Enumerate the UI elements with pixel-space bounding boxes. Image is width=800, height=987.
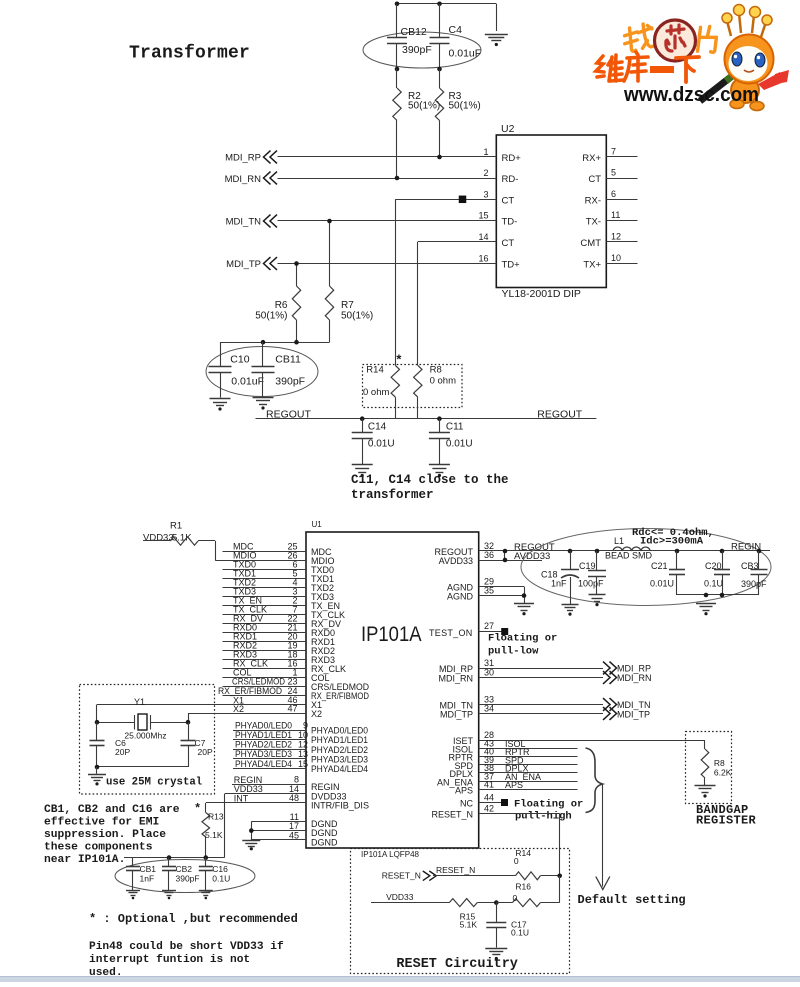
node C16 junction <box>204 855 209 860</box>
svg-text:44: 44 <box>484 793 494 803</box>
label BANDGAP REGISTER <box>696 803 757 828</box>
note EMI suppression <box>44 804 180 866</box>
net REGIN <box>731 542 761 553</box>
svg-text:R13: R13 <box>208 812 224 822</box>
wire top rail <box>397 4 497 32</box>
capacitor C19 <box>578 551 606 595</box>
U1 pin 30 inside label <box>438 674 473 684</box>
svg-text:0: 0 <box>513 893 518 903</box>
svg-text:CMT: CMT <box>580 238 601 249</box>
svg-text:INTR/FIB_DIS: INTR/FIB_DIS <box>311 801 369 811</box>
svg-text:RESET_N: RESET_N <box>431 810 473 820</box>
svg-text:PHYAD1/LED1: PHYAD1/LED1 <box>235 730 292 740</box>
ellipse power filter <box>521 529 771 606</box>
U1 pin 28 ISET <box>479 730 705 741</box>
svg-text:MDI_RN: MDI_RN <box>438 674 473 684</box>
svg-text:50(1%): 50(1%) <box>255 310 287 321</box>
node C21 junction <box>675 549 680 554</box>
U1 pin 34 MDI_TP <box>479 704 603 714</box>
node R14 right <box>557 874 562 879</box>
U1 pin 44 NC <box>479 793 501 803</box>
ground under C16 <box>199 891 213 900</box>
U1 pin 2 TX_EN wire <box>223 596 307 606</box>
net REGOUT left <box>266 408 312 420</box>
svg-text:MDI_TP: MDI_TP <box>617 709 650 719</box>
U2 pin 16 TD+ (left) <box>478 254 520 271</box>
capacitor C20 <box>704 551 730 595</box>
note floating pull-low <box>488 633 557 658</box>
svg-text:PHYAD0/LED0: PHYAD0/LED0 <box>311 726 368 736</box>
svg-text:suppression. Place: suppression. Place <box>44 829 166 841</box>
net REGOUT right <box>537 408 583 420</box>
svg-text:L1: L1 <box>614 536 624 546</box>
net MDI_RN <box>225 172 277 185</box>
wire AGND join <box>524 587 526 603</box>
resistor R7 <box>325 221 373 342</box>
svg-text:34: 34 <box>484 704 494 714</box>
wire DGND bus <box>251 821 253 840</box>
svg-text:390pF: 390pF <box>176 874 200 884</box>
U1 pin 10 PHYAD1/LED1 wire <box>233 730 308 740</box>
U1 pin 8 inside label <box>311 782 340 792</box>
U1 pin 19 RXD2 inside label <box>311 646 335 656</box>
resistor R1 <box>143 521 216 561</box>
svg-text:36: 36 <box>484 550 494 560</box>
transformer U2 box <box>496 123 606 288</box>
wire REGOUT rail <box>256 418 597 420</box>
svg-text:YL18-2001D DIP: YL18-2001D DIP <box>502 288 581 300</box>
U2 pin 2 RD- (left) <box>483 168 518 185</box>
wire REGOUT-AVDD33 tie <box>504 551 506 560</box>
label IP101A LQFP48 <box>361 850 420 859</box>
U1 pin 44 inside label <box>460 799 473 809</box>
svg-text:15: 15 <box>478 211 488 221</box>
svg-text:0.1U: 0.1U <box>212 874 230 884</box>
node bottom junction 2 <box>720 593 725 598</box>
U1 pin 17 DGND wire <box>251 821 306 831</box>
U1 pin 3 TXD3 inside label <box>311 592 334 602</box>
dotted box RESET <box>351 849 570 974</box>
U1 pin 25 MDC wire <box>223 542 307 552</box>
U1 pin 28 inside label <box>453 736 474 746</box>
U1 pin 19 RXD2 wire <box>223 641 307 651</box>
U1 pin 20 RXD1 wire <box>223 632 307 642</box>
note pin48 <box>89 941 284 979</box>
svg-text:Y1: Y1 <box>134 697 145 707</box>
svg-text:PHYAD2/LED2: PHYAD2/LED2 <box>311 745 368 755</box>
svg-text:15: 15 <box>298 759 308 769</box>
svg-text:PHYAD1/LED1: PHYAD1/LED1 <box>311 735 368 745</box>
asterisk optional mark <box>395 353 403 368</box>
svg-text:31: 31 <box>484 658 494 668</box>
svg-text:27: 27 <box>484 621 494 631</box>
U1 pin 33 MDI_TN <box>479 695 603 705</box>
svg-text:BEAD SMD: BEAD SMD <box>605 551 653 561</box>
U1 pin 35 inside label <box>447 592 474 602</box>
svg-text:Floating or: Floating or <box>488 633 557 645</box>
capacitor C7 <box>181 722 213 767</box>
svg-text:RD-: RD- <box>502 174 519 185</box>
svg-text:IP101A LQFP48: IP101A LQFP48 <box>361 850 420 859</box>
U1 pin 3 TXD3 wire <box>223 587 307 597</box>
svg-text:50(1%): 50(1%) <box>449 101 481 112</box>
svg-text:Pin48 could be short VDD33 if: Pin48 could be short VDD33 if <box>89 941 284 953</box>
node R6 top <box>294 261 299 266</box>
svg-text:PHYAD3/LED3: PHYAD3/LED3 <box>235 749 292 759</box>
U1 pin 6 TXD0 inside label <box>311 565 334 575</box>
net MDI_TN <box>226 215 277 228</box>
svg-text:pull-low: pull-low <box>488 645 539 657</box>
wire MDI_TN <box>278 220 497 222</box>
node R15 R16 C17 junction <box>494 900 499 905</box>
svg-text:2: 2 <box>483 168 488 178</box>
node crystal right <box>186 720 191 725</box>
svg-text:* : Optional ,but recommended: * : Optional ,but recommended <box>89 912 298 926</box>
dotted box R14 R8 <box>363 365 463 408</box>
U1 pin 43 inside label <box>452 744 473 754</box>
svg-text:RX_ER/FIBMOD: RX_ER/FIBMOD <box>218 686 282 696</box>
IC U1 box <box>306 520 479 848</box>
svg-text:MDI_RP: MDI_RP <box>225 153 261 164</box>
U2 pin 1 RD+ (left) <box>483 147 521 164</box>
wire cap bottoms <box>677 594 759 596</box>
svg-text:NC: NC <box>460 799 473 809</box>
U1 pin 42 RESET_N <box>479 804 560 814</box>
svg-text:C4: C4 <box>449 24 463 36</box>
svg-text:48: 48 <box>289 793 299 803</box>
asterisk R13 <box>194 802 201 816</box>
node C20 junction <box>720 549 725 554</box>
U1 pin 23 CRS/LEDMOD inside label <box>311 682 369 692</box>
svg-text:MDI_TN: MDI_TN <box>226 217 262 228</box>
svg-text:0.01U: 0.01U <box>368 439 395 450</box>
label YL18-2001D DIP <box>502 288 581 300</box>
node C18 junction <box>568 549 573 554</box>
svg-text:APS: APS <box>455 786 473 796</box>
wire MDI_RN <box>278 178 497 180</box>
U1 pin 15 PHYAD4/LED4 wire <box>233 759 308 769</box>
U1 pin 36 inside label <box>439 556 473 566</box>
U1 pin 32 inside label <box>434 547 473 557</box>
ellipse around C10 CB11 <box>206 347 318 397</box>
svg-text:REGISTER: REGISTER <box>696 814 757 828</box>
U1 pin 7 TX_CLK inside label <box>311 610 345 620</box>
svg-text:X2: X2 <box>233 704 244 714</box>
wire VDD33 cap rail <box>124 857 225 859</box>
svg-text:Idc>=300mA: Idc>=300mA <box>640 536 704 548</box>
label RESET Circuitry <box>396 957 518 972</box>
brace option pins <box>586 748 603 813</box>
website logo dzsc <box>596 5 789 111</box>
ground top right <box>485 35 508 47</box>
node R2 to MDI_RN <box>395 176 400 181</box>
svg-text:REGIN: REGIN <box>731 542 761 553</box>
svg-text:R16: R16 <box>515 881 531 891</box>
U1 pin 29 inside label <box>447 583 474 593</box>
node crystal left <box>95 720 100 725</box>
svg-text:0.01uF: 0.01uF <box>231 375 264 387</box>
U1 pin 18 RXD3 wire <box>223 650 307 660</box>
svg-text:0.1U: 0.1U <box>704 579 723 589</box>
svg-text:5.1K: 5.1K <box>460 920 478 930</box>
capacitor C14 <box>352 419 395 464</box>
node R6 bottom junction <box>294 340 299 345</box>
U2 pin 5 CT (right) <box>588 168 637 186</box>
U1 pin 5 TXD1 wire <box>223 569 307 579</box>
svg-text:0 ohm: 0 ohm <box>430 375 456 386</box>
U1 pin 48 inside label <box>311 801 369 811</box>
U1 pin 6 TXD0 wire <box>223 560 307 570</box>
svg-text:47: 47 <box>287 704 297 714</box>
U1 pin 24 RX_ER/FIBMOD wire <box>218 686 306 696</box>
svg-text:VDD33: VDD33 <box>386 892 414 902</box>
capacitor CB1 <box>126 858 156 890</box>
svg-text:PHYAD4/LED4: PHYAD4/LED4 <box>311 764 368 774</box>
wire U2 pin3 CT <box>395 199 496 365</box>
svg-text:PHYAD4/LED4: PHYAD4/LED4 <box>235 759 292 769</box>
U1 pin 27 TEST_ON <box>479 621 503 632</box>
U1 pin 46 X1 label <box>233 695 322 710</box>
ground DGND <box>242 841 260 851</box>
U2 pin 6 RX- (right) <box>585 189 638 207</box>
note default setting <box>578 893 686 907</box>
U1 pin 26 MDIO inside label <box>311 556 335 566</box>
svg-text:13: 13 <box>298 749 308 759</box>
svg-text:0: 0 <box>514 856 519 866</box>
inductor L1 BEAD SMD <box>605 536 653 561</box>
svg-text:near IP101A.: near IP101A. <box>44 854 125 866</box>
wire U2 pin14 CT <box>418 242 497 366</box>
svg-text:CT: CT <box>588 174 601 185</box>
dotted box bandgap <box>686 732 732 804</box>
U1 pin 24 RX_ER/FIBMOD inside label <box>311 691 369 701</box>
U2 pin 10 TX+ (right) <box>583 253 637 271</box>
U1 pin 1 COL inside label <box>311 673 330 683</box>
wire X1 <box>97 705 307 723</box>
wire MDI_TP <box>278 263 497 265</box>
U1 pin 1 COL wire <box>223 668 307 678</box>
note Rdc <box>632 527 714 548</box>
U1 pin 32 REGOUT <box>479 541 770 553</box>
U1 pin 41 inside label <box>455 786 473 796</box>
U1 pin 45 DGND wire <box>251 830 306 840</box>
footer bar <box>0 977 800 983</box>
svg-text:www.dzsc.com: www.dzsc.com <box>623 84 759 106</box>
capacitor CB2 <box>162 858 200 890</box>
svg-text:U2: U2 <box>501 123 515 135</box>
U1 pin 37 AN_ENA <box>479 771 578 782</box>
svg-text:20P: 20P <box>198 747 213 757</box>
node CB3 junction <box>757 549 762 554</box>
U1 pin 18 RXD3 inside label <box>311 655 335 665</box>
U1 pin 39 inside label <box>454 761 473 771</box>
svg-text:14: 14 <box>478 232 488 242</box>
svg-text:11: 11 <box>611 210 620 220</box>
svg-text:MDI_RP: MDI_RP <box>617 664 651 674</box>
node R7 top <box>327 219 332 224</box>
ellipse around CB12 C4 <box>363 32 481 68</box>
U1 pin 16 RX_CLK wire <box>223 659 307 669</box>
ground under CB11 <box>253 398 274 410</box>
wire MDI_RP <box>278 156 497 158</box>
wire cap rail <box>220 342 330 344</box>
svg-text:APS: APS <box>505 780 523 790</box>
dotted box crystal <box>80 685 215 795</box>
svg-text:RESET_N: RESET_N <box>382 871 421 881</box>
svg-text:RX+: RX+ <box>582 153 601 164</box>
wire VDD33 stub <box>371 902 449 904</box>
svg-text:25.000Mhz: 25.000Mhz <box>124 731 166 741</box>
U1 pin 8 REGIN wire <box>232 775 306 785</box>
U2 pin 3 CT (left) <box>483 189 514 206</box>
U1 pin 33 inside label <box>440 701 474 711</box>
ellipse around CB1 CB2 C16 <box>115 860 255 893</box>
U1 pin 11 DGND wire <box>251 812 306 822</box>
svg-text:C19: C19 <box>579 561 596 571</box>
svg-text:41: 41 <box>484 780 494 790</box>
net MDI_TP right <box>603 707 650 720</box>
svg-text:VDD33: VDD33 <box>143 533 174 544</box>
U1 pin 16 RX_CLK inside label <box>311 664 346 674</box>
svg-text:RESET_N: RESET_N <box>436 865 475 875</box>
net VDD33 reset <box>386 892 414 902</box>
ground power filter <box>696 604 716 616</box>
U1 pin 45 inside label <box>311 838 338 848</box>
U1 pin 41 APS <box>479 780 578 791</box>
ground under C19 <box>589 595 606 607</box>
svg-text:C11, C14 close to the: C11, C14 close to the <box>351 473 509 487</box>
svg-text:1nF: 1nF <box>140 874 155 884</box>
label IP101A <box>361 623 422 646</box>
svg-text:MDI_RN: MDI_RN <box>225 174 262 185</box>
node CB2 junction <box>167 855 172 860</box>
svg-text:10: 10 <box>611 253 621 263</box>
svg-text:C14: C14 <box>368 422 387 433</box>
svg-text:RESET Circuitry: RESET Circuitry <box>396 957 518 972</box>
svg-text:use 25M crystal: use 25M crystal <box>106 777 202 789</box>
ground under C17 <box>485 949 507 961</box>
ground AGND <box>514 604 534 616</box>
crystal Y1 <box>97 697 188 741</box>
svg-text:50(1%): 50(1%) <box>341 310 373 321</box>
wire reset vertical <box>559 876 561 903</box>
node NC square pin44 <box>501 799 508 806</box>
capacitor C21 <box>650 551 685 595</box>
svg-text:MDI_RN: MDI_RN <box>617 673 652 683</box>
capacitor C10 <box>209 342 265 397</box>
U1 pin 17 inside label <box>311 828 338 838</box>
U2 pin 11 TX- (right) <box>586 210 638 228</box>
U1 pin 5 TXD1 inside label <box>311 574 334 584</box>
svg-text:C16: C16 <box>212 864 228 874</box>
U1 pin 26 MDIO wire <box>215 551 306 561</box>
U1 pin 12 PHYAD2/LED2 wire <box>233 740 308 750</box>
capacitor C4 <box>430 4 482 69</box>
svg-text:R8: R8 <box>430 365 442 376</box>
U1 pin 48 INT wire <box>206 793 307 813</box>
svg-text:42: 42 <box>484 804 494 814</box>
wire crystal bottom <box>97 766 188 768</box>
node top rail junctions <box>395 2 442 7</box>
svg-text:16: 16 <box>478 254 488 264</box>
U1 pin 37 inside label <box>437 777 473 787</box>
svg-text:30: 30 <box>484 668 494 678</box>
U1 pin 13 PHYAD3/LED3 wire <box>233 749 308 759</box>
svg-text:MDI_RP: MDI_RP <box>439 664 473 674</box>
svg-text:Default setting: Default setting <box>578 893 686 907</box>
svg-text:*: * <box>194 802 201 816</box>
note use 25M crystal <box>106 777 202 789</box>
svg-text:X2: X2 <box>311 709 322 719</box>
svg-text:100pF: 100pF <box>578 579 604 589</box>
ground under C11 <box>429 465 450 478</box>
U1 pin 22 RX_DV wire <box>223 614 307 624</box>
U1 pin 31 inside label <box>439 664 473 674</box>
U2 pin 14 CT (left) <box>478 232 514 249</box>
node AGND <box>522 593 527 598</box>
svg-text:these components: these components <box>44 842 153 854</box>
U1 pin 23 CRS/LEDMOD wire <box>223 677 307 687</box>
resistor R2 <box>393 69 440 178</box>
note floating pull-high <box>514 799 583 823</box>
note C11 C14 close <box>351 473 509 502</box>
resistor R15 5.1K <box>449 899 496 930</box>
wire ISET to R8 <box>704 740 706 749</box>
svg-text:REGOUT: REGOUT <box>537 408 583 420</box>
svg-text:CB1, CB2 and C16 are: CB1, CB2 and C16 are <box>44 804 180 816</box>
svg-text:AGND: AGND <box>447 592 474 602</box>
U1 pin 25 MDC inside label <box>311 547 332 557</box>
resistor R14 0ohm <box>363 365 400 419</box>
node CB12-R2 junction <box>395 67 400 72</box>
svg-text:C20: C20 <box>705 561 722 571</box>
svg-text:35: 35 <box>484 586 494 596</box>
U1 pin 20 RXD1 inside label <box>311 637 335 647</box>
svg-text:C21: C21 <box>651 561 668 571</box>
svg-text:pull-high: pull-high <box>515 811 572 823</box>
node DGND junction <box>249 828 254 833</box>
svg-text:5.1K: 5.1K <box>205 830 223 840</box>
svg-text:3: 3 <box>483 189 488 199</box>
svg-text:transformer: transformer <box>351 488 434 502</box>
node NC square pin27 <box>501 628 508 635</box>
capacitor CB3 <box>741 551 768 595</box>
capacitor CB11 <box>252 342 306 397</box>
svg-text:CT: CT <box>502 195 515 206</box>
svg-text:TD-: TD- <box>502 217 518 228</box>
svg-text:MDI_TP: MDI_TP <box>440 710 473 720</box>
U1 pin 22 RX_DV inside label <box>311 619 341 629</box>
label RESET_N <box>436 865 475 875</box>
svg-text:R8: R8 <box>714 758 725 768</box>
svg-text:PHYAD3/LED3: PHYAD3/LED3 <box>311 754 368 764</box>
U1 pin 10 PHYAD1/LED1 inside label <box>311 735 368 745</box>
title Transformer <box>129 44 250 64</box>
ground crystal <box>88 767 106 786</box>
resistor R3 <box>435 69 480 157</box>
svg-text:0.01U: 0.01U <box>650 579 674 589</box>
U1 pin 43 ISOL <box>479 738 578 749</box>
svg-text:U1: U1 <box>312 520 323 529</box>
svg-text:effective for EMI: effective for EMI <box>44 817 159 829</box>
wire RESET_N stub <box>433 875 515 877</box>
node crystal gnd <box>95 765 100 770</box>
U1 pin 14 inside label <box>311 792 347 802</box>
svg-text:CB2: CB2 <box>176 864 193 874</box>
U1 pin 4 TXD2 inside label <box>311 583 334 593</box>
U1 pin 42 inside label <box>431 810 473 820</box>
node R3 to MDI_RP <box>437 155 442 160</box>
